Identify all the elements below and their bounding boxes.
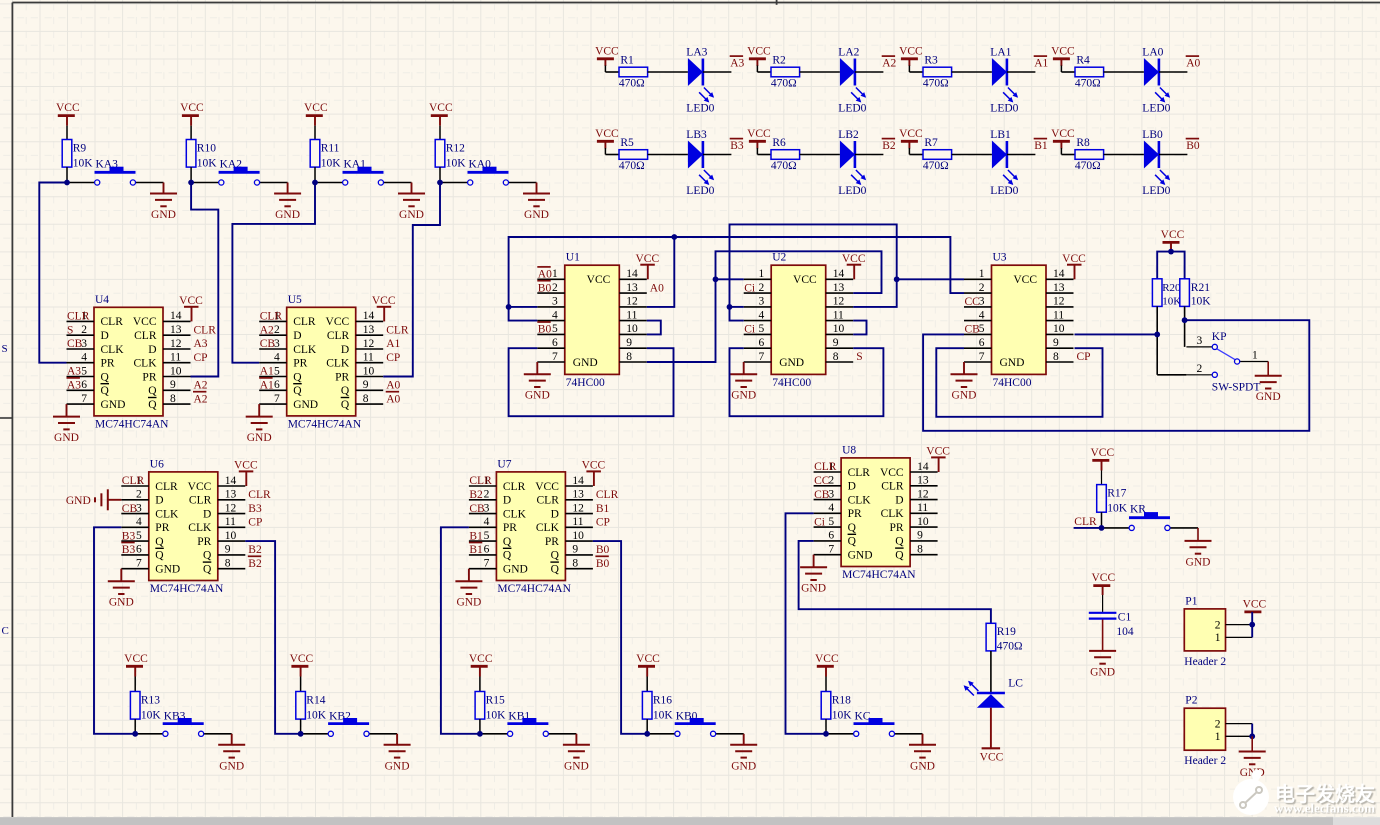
svg-text:VCC: VCC <box>290 653 314 665</box>
power vcc R20 R21 <box>1163 241 1180 244</box>
svg-text:CLR: CLR <box>1074 516 1097 528</box>
svg-text:11: 11 <box>363 352 374 364</box>
svg-text:6: 6 <box>758 337 764 349</box>
svg-text:R5: R5 <box>620 137 634 149</box>
svg-text:3: 3 <box>552 296 558 308</box>
resistor R10 10K <box>186 140 196 168</box>
svg-text:A0: A0 <box>386 393 400 405</box>
svg-text:GND: GND <box>848 550 873 562</box>
svg-text:CLK: CLK <box>848 494 872 506</box>
svg-text:CLR: CLR <box>848 467 871 479</box>
svg-text:GND: GND <box>564 760 589 772</box>
ic U6 MC74HC74AN <box>149 472 218 581</box>
svg-text:CLR: CLR <box>248 489 271 501</box>
svg-text:CLR: CLR <box>814 461 837 473</box>
svg-text:11: 11 <box>170 352 181 364</box>
svg-text:104: 104 <box>1116 626 1134 638</box>
svg-text:LED0: LED0 <box>838 185 866 197</box>
svg-text:10K: 10K <box>306 710 327 722</box>
svg-text:VCC: VCC <box>595 128 619 140</box>
svg-text:B0: B0 <box>1186 140 1200 152</box>
svg-text:Q: Q <box>101 371 110 383</box>
svg-text:S: S <box>856 351 862 363</box>
svg-text:10K: 10K <box>486 710 507 722</box>
svg-text:CLR: CLR <box>503 481 526 493</box>
svg-text:B3: B3 <box>122 530 136 542</box>
svg-text:GND: GND <box>1256 391 1281 403</box>
svg-text:9: 9 <box>363 379 369 391</box>
wire U2 pins3-4 to pin12 and U3 pin1 <box>730 224 897 320</box>
svg-text:1: 1 <box>758 268 764 280</box>
LED LB3 <box>688 141 703 169</box>
svg-text:GND: GND <box>1090 666 1115 678</box>
svg-text:B3: B3 <box>248 503 262 515</box>
svg-text:P2: P2 <box>1185 695 1197 707</box>
svg-text:11: 11 <box>225 516 236 528</box>
ground KB2 <box>396 734 398 745</box>
svg-text:74HC00: 74HC00 <box>772 377 811 389</box>
svg-text:13: 13 <box>1053 282 1065 294</box>
wire R5 to LED <box>648 154 688 156</box>
ground KA0 <box>536 183 538 194</box>
wire LB1 cathode <box>1007 154 1036 156</box>
resistor R14 10K <box>296 692 306 720</box>
ic U4 MC74HC74AN <box>94 307 163 416</box>
svg-text:A2: A2 <box>194 380 208 392</box>
svg-text:Q: Q <box>101 385 110 397</box>
ground U5 pin7 <box>258 404 260 417</box>
svg-text:S: S <box>2 343 8 355</box>
svg-text:Ci: Ci <box>744 324 755 336</box>
svg-text:14: 14 <box>1053 268 1065 280</box>
switch KB3 <box>135 733 163 735</box>
svg-text:A1: A1 <box>1034 58 1048 70</box>
svg-text:Header 2: Header 2 <box>1184 755 1226 767</box>
svg-text:LED0: LED0 <box>686 102 714 114</box>
svg-text:10: 10 <box>917 516 929 528</box>
wire LB3 cathode <box>703 154 732 156</box>
svg-text:VCC: VCC <box>842 253 866 265</box>
svg-text:CLK: CLK <box>293 344 317 356</box>
resistor R12 10K <box>435 140 445 168</box>
svg-text:4: 4 <box>484 516 490 528</box>
svg-text:VCC: VCC <box>188 481 212 493</box>
svg-text:VCC: VCC <box>304 102 328 114</box>
svg-text:2: 2 <box>1215 718 1221 730</box>
svg-text:1: 1 <box>979 268 985 280</box>
svg-text:VCC: VCC <box>899 45 923 57</box>
wire LB2 cathode <box>855 154 884 156</box>
ground U1 pin7 <box>536 362 538 374</box>
svg-text:S: S <box>67 324 73 336</box>
svg-text:8: 8 <box>572 558 578 570</box>
svg-text:VCC: VCC <box>980 752 1004 764</box>
svg-text:2: 2 <box>758 282 764 294</box>
svg-text:GND: GND <box>247 432 272 444</box>
svg-text:B1: B1 <box>596 503 610 515</box>
wire KB3 to U6 pin4 <box>94 527 135 734</box>
svg-text:470Ω: 470Ω <box>619 78 645 90</box>
svg-text:4: 4 <box>758 309 764 321</box>
junction KB3 <box>132 731 138 737</box>
LED LA3 <box>688 58 703 86</box>
junction R17 KR <box>1099 525 1105 531</box>
svg-text:B2: B2 <box>882 140 896 152</box>
junction KC <box>823 731 829 737</box>
svg-text:10K: 10K <box>446 158 467 170</box>
svg-text:13: 13 <box>917 475 929 487</box>
svg-text:VCC: VCC <box>635 253 659 265</box>
wire U2 pin6 to pin9 <box>730 348 884 416</box>
svg-text:B1: B1 <box>469 544 483 556</box>
svg-text:VCC: VCC <box>1090 447 1114 459</box>
svg-text:R15: R15 <box>486 695 505 707</box>
svg-text:B0: B0 <box>596 544 610 556</box>
power vcc U4 pin14 <box>191 307 193 322</box>
svg-text:2: 2 <box>1215 619 1221 631</box>
svg-text:5: 5 <box>828 516 834 528</box>
wire KB0 to U7 pin10 <box>593 541 647 734</box>
power vcc U5 pin14 <box>383 307 385 322</box>
svg-text:SW-SPDT: SW-SPDT <box>1212 382 1261 394</box>
resistor R17 10K <box>1097 485 1107 513</box>
svg-text:R21: R21 <box>1191 282 1210 294</box>
switch KA2 <box>191 182 219 184</box>
svg-text:VCC: VCC <box>793 274 817 286</box>
svg-text:LED0: LED0 <box>990 102 1018 114</box>
wire R2 to LED <box>800 71 840 73</box>
svg-text:GND: GND <box>801 583 826 595</box>
ground SPDT pin1 <box>1267 362 1269 376</box>
svg-text:PR: PR <box>101 358 115 370</box>
svg-text:VCC: VCC <box>469 653 493 665</box>
svg-text:GND: GND <box>293 399 318 411</box>
svg-text:4: 4 <box>552 309 558 321</box>
svg-text:GND: GND <box>155 564 180 576</box>
svg-text:VCC: VCC <box>815 653 839 665</box>
svg-text:VCC: VCC <box>180 102 204 114</box>
svg-text:CLR: CLR <box>134 330 157 342</box>
svg-text:B2: B2 <box>469 489 483 501</box>
svg-text:10K: 10K <box>1191 296 1212 308</box>
svg-text:10K: 10K <box>832 710 853 722</box>
svg-text:9: 9 <box>1053 337 1059 349</box>
power vcc U6 pin14 <box>245 471 247 486</box>
resistor R18 10K <box>821 692 831 720</box>
svg-text:A2: A2 <box>260 324 274 336</box>
svg-text:CLR: CLR <box>596 489 619 501</box>
svg-text:PR: PR <box>545 536 559 548</box>
svg-text:GND: GND <box>101 399 126 411</box>
power vcc U7 pin14 <box>593 471 595 486</box>
svg-text:470Ω: 470Ω <box>771 78 797 90</box>
svg-text:P1: P1 <box>1185 595 1197 607</box>
svg-text:C: C <box>2 625 9 637</box>
ground KA1 <box>411 183 413 194</box>
svg-text:14: 14 <box>917 461 929 473</box>
svg-text:4: 4 <box>274 352 280 364</box>
vcc R8 column <box>1053 140 1070 143</box>
vcc R14 column <box>291 665 308 668</box>
svg-text:VCC: VCC <box>1161 229 1185 241</box>
svg-text:LA2: LA2 <box>838 47 859 59</box>
svg-text:1: 1 <box>1215 632 1221 644</box>
svg-text:470Ω: 470Ω <box>771 160 797 172</box>
vcc R4 column <box>1053 57 1070 60</box>
svg-text:VCC: VCC <box>133 316 157 328</box>
svg-text:6: 6 <box>828 530 834 542</box>
svg-text:5: 5 <box>484 530 490 542</box>
svg-text:9: 9 <box>170 379 176 391</box>
switch KA3 <box>67 182 95 184</box>
ic U3 74HC00 <box>992 265 1047 374</box>
svg-text:10K: 10K <box>321 158 342 170</box>
svg-text:LED0: LED0 <box>838 102 866 114</box>
power vcc P1 <box>1244 611 1261 614</box>
svg-text:D: D <box>293 330 301 342</box>
svg-text:GND: GND <box>731 390 756 402</box>
svg-text:CLR: CLR <box>67 311 90 323</box>
ground C1 <box>1102 620 1104 651</box>
svg-text:10K: 10K <box>73 158 94 170</box>
svg-text:LED0: LED0 <box>1142 185 1170 197</box>
svg-text:MC74HC74AN: MC74HC74AN <box>842 569 916 581</box>
svg-text:D: D <box>848 481 856 493</box>
svg-text:12: 12 <box>225 502 237 514</box>
wire LA0 cathode <box>1159 71 1188 73</box>
svg-text:GND: GND <box>219 760 244 772</box>
svg-text:PR: PR <box>155 522 169 534</box>
svg-text:A2: A2 <box>882 58 896 70</box>
LED LA2 <box>840 58 855 86</box>
svg-text:A3: A3 <box>194 338 208 350</box>
svg-text:CLR: CLR <box>155 481 178 493</box>
svg-text:CB: CB <box>260 338 276 350</box>
svg-text:D: D <box>203 508 211 520</box>
svg-text:8: 8 <box>363 393 369 405</box>
wire U1 pin6 to pin9 <box>509 348 674 416</box>
resistor R15 10K <box>475 692 485 720</box>
svg-text:CLK: CLK <box>188 522 212 534</box>
svg-text:R2: R2 <box>772 55 786 67</box>
ground U7 pin7 <box>468 569 470 582</box>
power vcc R17 <box>1092 459 1109 462</box>
wire branch U1 pin3 <box>509 306 538 308</box>
svg-text:CLK: CLK <box>503 508 527 520</box>
svg-text:10K: 10K <box>197 158 218 170</box>
resistor R8 <box>1061 154 1075 156</box>
svg-text:Q: Q <box>341 399 350 411</box>
vcc R15 column <box>471 665 488 668</box>
svg-text:VCC: VCC <box>1062 253 1086 265</box>
svg-text:CLK: CLK <box>155 508 179 520</box>
svg-text:PR: PR <box>142 371 156 383</box>
svg-text:8: 8 <box>225 558 231 570</box>
svg-text:R20: R20 <box>1162 282 1181 294</box>
vcc R5 column <box>597 140 614 143</box>
svg-text:11: 11 <box>626 309 637 321</box>
svg-text:4: 4 <box>81 352 87 364</box>
wire U1 pin11 to pin10 <box>647 321 661 335</box>
svg-text:CLK: CLK <box>881 508 905 520</box>
ground KA3 <box>163 183 165 194</box>
svg-text:PR: PR <box>503 522 517 534</box>
svg-text:A0: A0 <box>1186 58 1200 70</box>
svg-text:R9: R9 <box>73 143 87 155</box>
svg-text:Q: Q <box>848 522 857 534</box>
wire R4 to LED <box>1104 71 1144 73</box>
svg-text:10K: 10K <box>653 710 674 722</box>
svg-text:9: 9 <box>572 544 578 556</box>
svg-text:B1: B1 <box>469 530 483 542</box>
svg-text:6: 6 <box>979 337 985 349</box>
svg-text:Q: Q <box>551 564 560 576</box>
svg-text:GND: GND <box>573 357 598 369</box>
svg-text:8: 8 <box>1053 351 1059 363</box>
svg-text:A1: A1 <box>386 338 400 350</box>
wire branch U1 pin12 <box>647 237 675 307</box>
wire branch U2 pin3 <box>730 306 744 308</box>
wire branch U2 pin1 <box>716 278 744 280</box>
svg-text:D: D <box>155 495 163 507</box>
svg-text:8: 8 <box>170 393 176 405</box>
vcc R9 column <box>58 114 75 117</box>
wire vcc split R20 R21 <box>1157 252 1184 279</box>
svg-text:9: 9 <box>225 544 231 556</box>
svg-text:Q: Q <box>203 550 212 562</box>
wire LB0 cathode <box>1159 154 1188 156</box>
svg-text:U7: U7 <box>497 458 511 470</box>
svg-text:14: 14 <box>626 268 638 280</box>
wire CLR net R17 <box>1074 527 1102 529</box>
ground KB1 <box>575 734 577 745</box>
svg-text:Q: Q <box>341 385 350 397</box>
svg-text:10: 10 <box>363 365 375 377</box>
svg-text:KP: KP <box>1212 331 1227 343</box>
svg-text:12: 12 <box>1053 296 1065 308</box>
svg-text:11: 11 <box>833 309 844 321</box>
svg-text:CLR: CLR <box>122 475 145 487</box>
svg-text:C1: C1 <box>1118 611 1132 623</box>
LED LB1 <box>992 141 1007 169</box>
svg-text:7: 7 <box>274 393 280 405</box>
svg-text:D: D <box>341 344 349 356</box>
svg-text:GND: GND <box>385 760 410 772</box>
svg-text:8: 8 <box>917 544 923 556</box>
svg-text:B2: B2 <box>248 544 262 556</box>
power vcc C1 <box>1093 584 1110 587</box>
svg-text:VCC: VCC <box>595 45 619 57</box>
svg-text:3: 3 <box>1197 335 1203 347</box>
power vcc U3 pin14 <box>1074 265 1076 280</box>
resistor R7 <box>909 154 923 156</box>
svg-text:R16: R16 <box>653 695 672 707</box>
svg-text:GND: GND <box>456 597 481 609</box>
svg-text:D: D <box>101 330 109 342</box>
svg-text:11: 11 <box>1053 309 1064 321</box>
svg-text:Ci: Ci <box>814 516 825 528</box>
svg-text:CB: CB <box>965 324 981 336</box>
svg-text:5: 5 <box>136 530 142 542</box>
svg-text:470Ω: 470Ω <box>1075 160 1101 172</box>
bottom scrollbar <box>0 817 1380 825</box>
wire U3 pin5 big loop to R21 <box>923 320 1309 431</box>
ground KR <box>1197 528 1199 541</box>
svg-text:U1: U1 <box>566 252 580 264</box>
power vcc U2 pin14 <box>853 265 855 280</box>
svg-text:U5: U5 <box>288 294 302 306</box>
svg-text:D: D <box>148 344 156 356</box>
svg-text:CLR: CLR <box>881 481 904 493</box>
wire P2 pins <box>1251 724 1253 737</box>
svg-text:U3: U3 <box>993 252 1007 264</box>
svg-text:14: 14 <box>363 310 375 322</box>
svg-text:D: D <box>895 494 903 506</box>
svg-text:CLR: CLR <box>293 316 316 328</box>
svg-text:A1: A1 <box>260 380 274 392</box>
resistor R4 <box>1061 71 1075 73</box>
svg-text:Q: Q <box>155 536 164 548</box>
svg-text:LA0: LA0 <box>1142 47 1163 59</box>
svg-text:VCC: VCC <box>1051 45 1075 57</box>
svg-text:A3: A3 <box>67 366 81 378</box>
switch SW-SPDT KP <box>1186 346 1212 348</box>
svg-text:2: 2 <box>81 324 87 336</box>
svg-text:6: 6 <box>552 337 558 349</box>
wire R6 to LED <box>800 154 840 156</box>
svg-text:Ci: Ci <box>744 282 755 294</box>
vcc R13 column <box>126 665 143 668</box>
resistor R13 10K <box>130 692 140 720</box>
svg-text:CLR: CLR <box>327 330 350 342</box>
svg-text:R19: R19 <box>997 626 1016 638</box>
svg-text:R4: R4 <box>1076 55 1090 67</box>
svg-text:B1: B1 <box>1034 140 1048 152</box>
svg-text:4: 4 <box>979 309 985 321</box>
svg-text:Q: Q <box>293 385 302 397</box>
svg-text:CLR: CLR <box>386 324 409 336</box>
svg-text:1: 1 <box>1215 731 1221 743</box>
svg-text:MC74HC74AN: MC74HC74AN <box>497 583 571 595</box>
svg-text:13: 13 <box>626 282 638 294</box>
junction KB0 <box>644 731 650 737</box>
svg-text:CLR: CLR <box>260 311 283 323</box>
svg-text:7: 7 <box>81 393 87 405</box>
svg-text:R18: R18 <box>832 695 851 707</box>
svg-text:GND: GND <box>151 209 176 221</box>
svg-text:11: 11 <box>572 516 583 528</box>
svg-text:Q: Q <box>148 385 157 397</box>
svg-text:470Ω: 470Ω <box>923 160 949 172</box>
resistor R21 10K <box>1180 279 1190 307</box>
svg-text:6: 6 <box>136 544 142 556</box>
svg-text:6: 6 <box>81 379 87 391</box>
svg-text:4: 4 <box>828 502 834 514</box>
wire U2 pin11 to pin10 <box>853 321 866 335</box>
junction KA0 <box>437 180 443 186</box>
junction KA3 <box>64 180 70 186</box>
LED LC <box>977 692 1005 694</box>
watermark elecfans logo <box>1233 770 1269 815</box>
op U1 74HC00 <box>565 265 620 374</box>
LED LA1 <box>992 58 1007 86</box>
svg-text:U8: U8 <box>842 444 856 456</box>
svg-text:B2: B2 <box>248 558 262 570</box>
svg-text:CB: CB <box>67 338 83 350</box>
svg-text:PR: PR <box>293 358 307 370</box>
svg-text:14: 14 <box>170 310 182 322</box>
switch KC <box>826 733 854 735</box>
